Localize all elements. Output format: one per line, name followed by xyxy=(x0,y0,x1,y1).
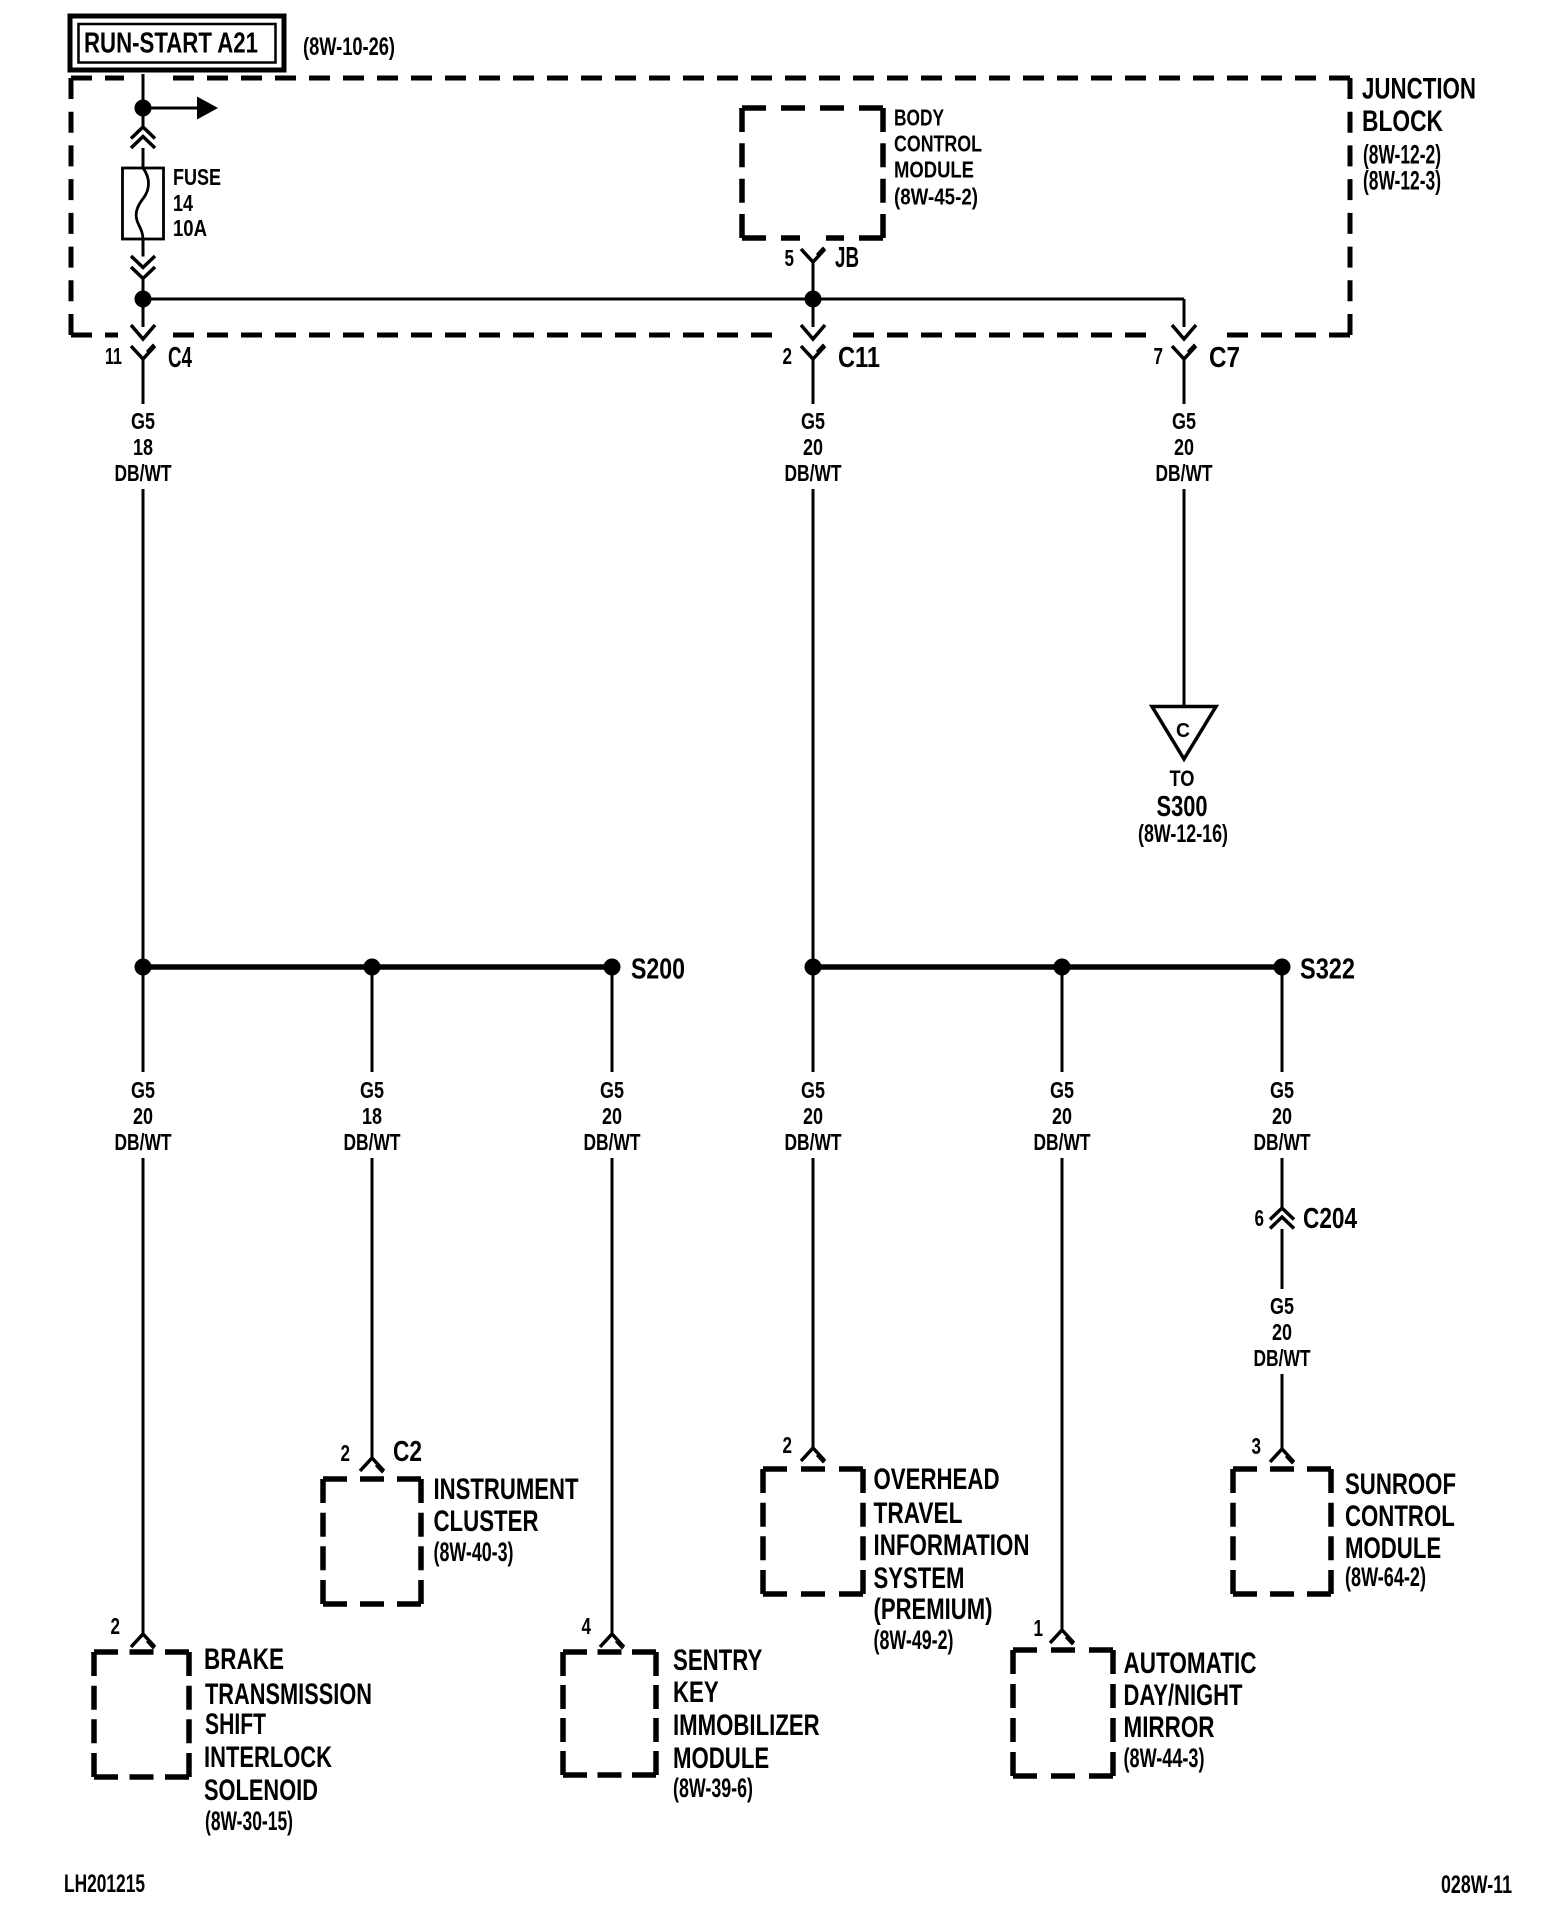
svg-text:IMMOBILIZER: IMMOBILIZER xyxy=(673,1709,820,1742)
node S322 right xyxy=(1274,959,1291,976)
svg-text:G5: G5 xyxy=(1050,1077,1074,1103)
wire: bus drop to C11 xyxy=(812,299,815,327)
svg-text:2: 2 xyxy=(341,1440,351,1466)
wire: RUN-START A21 feed into junction block xyxy=(142,74,145,127)
connector chevrons above fuse xyxy=(131,127,155,148)
node S200 right xyxy=(604,959,621,976)
wire: junction block bus xyxy=(143,298,1184,301)
svg-text:20: 20 xyxy=(1272,1319,1292,1345)
brake transmission shift interlock solenoid label xyxy=(204,1643,372,1836)
arrow: feed continues right xyxy=(143,97,218,120)
node S200 middle xyxy=(364,959,381,976)
connector fork at sunroof module xyxy=(1270,1449,1294,1462)
svg-text:2: 2 xyxy=(783,343,793,369)
svg-text:G5: G5 xyxy=(1172,408,1196,434)
connector chevrons below fuse xyxy=(131,256,155,279)
svg-text:DAY/NIGHT: DAY/NIGHT xyxy=(1124,1679,1243,1712)
svg-text:DB/WT: DB/WT xyxy=(344,1129,401,1155)
svg-text:C2: C2 xyxy=(393,1436,422,1468)
svg-text:G5: G5 xyxy=(1270,1293,1294,1319)
svg-text:DB/WT: DB/WT xyxy=(584,1129,641,1155)
svg-text:FUSE: FUSE xyxy=(173,164,221,190)
wire: JB to bus xyxy=(812,262,815,293)
wire: to sunroof control module xyxy=(1281,1374,1284,1449)
wire: splice branch x=612 xyxy=(611,972,614,1072)
wire: bus drop to C7 xyxy=(1183,299,1186,327)
brake transmission shift interlock solenoid box xyxy=(94,1652,189,1777)
svg-text:SOLENOID: SOLENOID xyxy=(204,1774,318,1807)
svg-text:(8W-12-3): (8W-12-3) xyxy=(1363,166,1441,196)
svg-text:C7: C7 xyxy=(1209,342,1240,374)
svg-text:C11: C11 xyxy=(838,342,880,374)
wire: splice branch x=813 xyxy=(812,972,815,1072)
svg-text:CONTROL: CONTROL xyxy=(1345,1500,1455,1533)
wire: C7 down xyxy=(1183,359,1186,404)
wire: C204 down xyxy=(1281,1229,1284,1289)
connector fork at brake solenoid xyxy=(131,1634,155,1647)
svg-text:11: 11 xyxy=(105,343,122,369)
svg-text:(8W-44-3): (8W-44-3) xyxy=(1124,1743,1205,1773)
wire label G5 20 DB/WT (C11) xyxy=(785,408,842,486)
svg-text:(8W-64-2): (8W-64-2) xyxy=(1345,1562,1426,1592)
svg-text:DB/WT: DB/WT xyxy=(115,1129,172,1155)
wire label G5 20 DB/WT xyxy=(115,1077,172,1155)
node: fuse feed junction xyxy=(135,100,152,117)
svg-text:(8W-30-15): (8W-30-15) xyxy=(205,1806,293,1836)
svg-text:MODULE: MODULE xyxy=(1345,1532,1441,1565)
svg-text:INFORMATION: INFORMATION xyxy=(874,1529,1030,1562)
svg-text:20: 20 xyxy=(803,434,823,460)
wire: splice branch x=1062 xyxy=(1061,972,1064,1072)
svg-text:18: 18 xyxy=(362,1103,382,1129)
svg-text:S322: S322 xyxy=(1300,954,1355,986)
svg-text:KEY: KEY xyxy=(673,1676,719,1709)
svg-text:3: 3 xyxy=(1252,1433,1262,1459)
automatic day/night mirror box xyxy=(1013,1650,1113,1776)
svg-text:SENTRY: SENTRY xyxy=(673,1644,762,1677)
svg-text:AUTOMATIC: AUTOMATIC xyxy=(1124,1647,1257,1680)
arrow into C7 xyxy=(1172,325,1196,339)
sunroof control module label xyxy=(1345,1468,1456,1592)
connector C2 fork xyxy=(360,1458,384,1471)
svg-text:G5: G5 xyxy=(801,408,825,434)
svg-text:G5: G5 xyxy=(131,408,155,434)
fuse 14 10A xyxy=(123,168,164,239)
svg-text:TRANSMISSION: TRANSMISSION xyxy=(205,1678,372,1711)
connector fork at mirror xyxy=(1050,1630,1074,1643)
svg-text:7: 7 xyxy=(1154,343,1164,369)
wire: C4 to splice S200 xyxy=(142,489,145,966)
svg-text:SHIFT: SHIFT xyxy=(205,1708,266,1741)
svg-text:CLUSTER: CLUSTER xyxy=(434,1505,539,1538)
wire label G5 20 DB/WT (C7) xyxy=(1156,408,1213,486)
connector C4 fork xyxy=(131,346,155,359)
svg-text:BODY: BODY xyxy=(894,105,944,131)
overhead travel information system box xyxy=(763,1469,863,1594)
wire: chevron to fuse xyxy=(142,148,145,168)
svg-text:1: 1 xyxy=(1034,1615,1044,1641)
sentry key immobilizer module box xyxy=(563,1652,656,1775)
svg-text:20: 20 xyxy=(1052,1103,1072,1129)
wire: C4 down xyxy=(142,359,145,404)
wire label G5 20 DB/WT xyxy=(584,1077,641,1155)
svg-text:SYSTEM: SYSTEM xyxy=(874,1562,965,1595)
wire: splice branch x=143 xyxy=(142,972,145,1072)
svg-text:18: 18 xyxy=(133,434,153,460)
wire: bus left drop to C4 xyxy=(142,307,145,327)
svg-text:INTERLOCK: INTERLOCK xyxy=(204,1741,332,1774)
svg-text:20: 20 xyxy=(1174,434,1194,460)
node S322 left xyxy=(805,959,822,976)
svg-text:JB: JB xyxy=(835,242,859,274)
svg-text:(8W-10-26): (8W-10-26) xyxy=(303,33,395,61)
splice S200 bus xyxy=(143,964,612,970)
svg-text:SUNROOF: SUNROOF xyxy=(1345,1468,1456,1501)
instrument cluster label xyxy=(434,1473,579,1567)
wire: to automatic day/night mirror xyxy=(1061,1158,1064,1630)
svg-text:(8W-40-3): (8W-40-3) xyxy=(434,1537,514,1567)
svg-text:G5: G5 xyxy=(600,1077,624,1103)
connector C11 fork xyxy=(801,346,825,359)
svg-text:JUNCTION: JUNCTION xyxy=(1362,73,1476,106)
node: bus middle junction xyxy=(805,291,822,308)
svg-text:CONTROL: CONTROL xyxy=(894,131,982,157)
svg-text:DB/WT: DB/WT xyxy=(115,460,172,486)
sunroof control module box xyxy=(1233,1469,1331,1594)
wire: C11 to splice S322 xyxy=(812,489,815,966)
wire label G5 20 DB/WT xyxy=(785,1077,842,1155)
wire label G5 20 DB/WT xyxy=(1034,1077,1091,1155)
wire: splice branch x=1282 xyxy=(1281,972,1284,1072)
node: bus left junction xyxy=(135,291,152,308)
wire: to instrument cluster xyxy=(371,1158,374,1458)
wire label G5 20 DB/WT xyxy=(1254,1077,1311,1155)
svg-text:4: 4 xyxy=(582,1613,592,1639)
svg-text:(8W-49-2): (8W-49-2) xyxy=(874,1625,954,1655)
instrument cluster box xyxy=(323,1479,421,1604)
arrow into C11 xyxy=(801,325,825,339)
svg-text:G5: G5 xyxy=(131,1077,155,1103)
wire: fuse to bus xyxy=(142,239,145,257)
svg-text:OVERHEAD: OVERHEAD xyxy=(874,1463,1000,1496)
automatic day/night mirror label xyxy=(1124,1647,1257,1773)
svg-text:20: 20 xyxy=(1272,1103,1292,1129)
svg-text:(8W-39-6): (8W-39-6) xyxy=(673,1773,753,1803)
svg-text:DB/WT: DB/WT xyxy=(1254,1129,1311,1155)
wire: S322 branch to C204 chevrons xyxy=(1281,1158,1284,1207)
splice S322 bus xyxy=(813,964,1282,970)
node S322 middle xyxy=(1054,959,1071,976)
svg-text:G5: G5 xyxy=(360,1077,384,1103)
svg-text:MIRROR: MIRROR xyxy=(1124,1711,1215,1744)
connector C204 chevrons xyxy=(1270,1208,1294,1229)
connector C7 fork xyxy=(1172,346,1196,359)
overhead travel information system label xyxy=(874,1463,1030,1655)
wire: splice branch x=372 xyxy=(371,972,374,1072)
connector fork at OTIS xyxy=(801,1448,825,1461)
svg-text:DB/WT: DB/WT xyxy=(785,1129,842,1155)
svg-text:DB/WT: DB/WT xyxy=(1034,1129,1091,1155)
svg-text:LH201215: LH201215 xyxy=(64,1870,145,1898)
svg-text:5: 5 xyxy=(785,245,795,271)
svg-text:DB/WT: DB/WT xyxy=(785,460,842,486)
sentry key immobilizer module label xyxy=(673,1644,820,1803)
svg-text:20: 20 xyxy=(133,1103,153,1129)
wire: to overhead travel information system xyxy=(812,1158,815,1448)
wire: to sentry key immobilizer module xyxy=(611,1158,614,1634)
svg-text:G5: G5 xyxy=(801,1077,825,1103)
svg-text:C204: C204 xyxy=(1303,1203,1357,1235)
fuse value label FUSE 14 10A xyxy=(173,164,221,241)
svg-text:(8W-12-16): (8W-12-16) xyxy=(1138,820,1228,848)
svg-text:20: 20 xyxy=(803,1103,823,1129)
wire: C7 to off-page connector C xyxy=(1183,489,1186,707)
svg-text:20: 20 xyxy=(602,1103,622,1129)
body control module (8W-45-2) xyxy=(742,108,883,238)
node S200 left xyxy=(135,959,152,976)
svg-text:2: 2 xyxy=(111,1613,121,1639)
svg-text:RUN-START A21: RUN-START A21 xyxy=(84,28,258,60)
svg-text:028W-11: 028W-11 xyxy=(1441,1871,1512,1899)
svg-text:MODULE: MODULE xyxy=(894,157,974,183)
svg-text:(PREMIUM): (PREMIUM) xyxy=(874,1593,993,1626)
wire label G5 18 DB/WT xyxy=(344,1077,401,1155)
wire label G5 18 DB/WT (C4) xyxy=(115,408,172,486)
svg-text:BRAKE: BRAKE xyxy=(204,1643,284,1676)
svg-text:TO: TO xyxy=(1170,766,1195,791)
junction block dashed outline xyxy=(71,78,1350,335)
svg-text:C: C xyxy=(1176,720,1190,742)
label RUN-START A21 xyxy=(70,16,284,70)
svg-text:S200: S200 xyxy=(631,954,685,986)
note TO S300 (8W-12-16) xyxy=(1138,766,1228,848)
svg-text:MODULE: MODULE xyxy=(673,1742,769,1775)
wire label G5 20 DB/WT (sunroof) xyxy=(1254,1293,1311,1371)
svg-text:10A: 10A xyxy=(173,215,207,241)
svg-text:DB/WT: DB/WT xyxy=(1156,460,1213,486)
svg-text:S300: S300 xyxy=(1157,791,1208,823)
svg-text:BLOCK: BLOCK xyxy=(1362,105,1443,138)
svg-text:G5: G5 xyxy=(1270,1077,1294,1103)
connector fork at sentry key module xyxy=(600,1634,624,1647)
wire: C11 down xyxy=(812,359,815,404)
connector JB fork xyxy=(801,249,825,262)
svg-text:INSTRUMENT: INSTRUMENT xyxy=(434,1473,579,1506)
svg-text:DB/WT: DB/WT xyxy=(1254,1345,1311,1371)
wire: to brake solenoid xyxy=(142,1158,145,1634)
off-page connector C (to S300) xyxy=(1152,707,1216,760)
junction block label xyxy=(1362,73,1476,196)
svg-text:6: 6 xyxy=(1255,1205,1265,1231)
svg-text:C4: C4 xyxy=(168,342,192,374)
arrow into C4 xyxy=(131,325,155,339)
wire: chevron to bus node xyxy=(142,279,145,293)
svg-text:(8W-45-2): (8W-45-2) xyxy=(894,184,978,210)
svg-text:2: 2 xyxy=(783,1432,793,1458)
body control module label xyxy=(894,105,982,210)
svg-text:14: 14 xyxy=(173,190,193,216)
svg-text:TRAVEL: TRAVEL xyxy=(874,1497,963,1530)
